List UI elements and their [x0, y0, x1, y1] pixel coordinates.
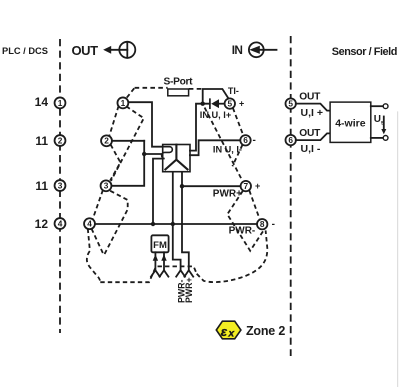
dashed test path junction to terminal 7 [205, 108, 243, 181]
PLC-side terminal circle 1 [55, 97, 66, 108]
module terminal circle 5 [225, 98, 235, 108]
svg-text:-: - [253, 135, 256, 146]
svg-text:S-Port: S-Port [164, 77, 194, 88]
isolator input S symbol [162, 147, 173, 159]
svg-text:IN U, I+: IN U, I+ [200, 110, 231, 120]
wire terminal 2 to node A [112, 140, 145, 142]
svg-text:OUT: OUT [299, 128, 321, 139]
field boundary dashed line [290, 36, 292, 356]
dashed option: terminal 1 to terminal 2 [109, 106, 118, 136]
junction TI tap [201, 102, 205, 106]
PLC/DCS boundary dashed line [59, 39, 61, 333]
svg-text:IN: IN [232, 43, 243, 57]
IN direction symbol [249, 42, 277, 57]
PLC-side terminal circle 2 [55, 135, 66, 146]
dashed option: terminal 4 elbow to plug bus [87, 229, 100, 283]
wire field 5 to 4-wire sensor [296, 104, 330, 111]
svg-text:TI-: TI- [228, 86, 239, 96]
svg-text:4-wire: 4-wire [335, 117, 366, 129]
wire isolator box to terminal 6 [190, 140, 241, 155]
dashed arc bus to terminal 8 [197, 230, 268, 282]
sensor supply stub top [371, 105, 383, 107]
FM box [151, 235, 168, 252]
dashed option: terminal 1 via vertex to terminal 3 [111, 106, 144, 181]
svg-text:5: 5 [227, 99, 232, 109]
wire terminal 1 to isolator box [128, 102, 163, 147]
junction bottom-left pin on rail [171, 222, 175, 226]
dashed option: terminal 3 via elbow to bottom vertex [104, 191, 128, 256]
dashed S-Port line right [189, 88, 202, 90]
svg-text:OUT: OUT [72, 43, 99, 58]
PLC-side terminal circle 3 [55, 180, 66, 191]
module terminal circle 1 [117, 97, 128, 108]
module terminal circle 6 [240, 135, 250, 145]
svg-text:6: 6 [288, 135, 293, 145]
svg-text:1: 1 [58, 98, 63, 108]
PWR- plug chevron [176, 270, 185, 276]
wire rail to PWR- plug [173, 224, 181, 270]
diode D1 [210, 99, 225, 108]
svg-text:8: 8 [260, 219, 265, 229]
svg-text:PWR+: PWR+ [184, 277, 194, 303]
svg-text:ε: ε [221, 324, 228, 339]
dashed plug bus [100, 266, 196, 282]
svg-text:PLC / DCS: PLC / DCS [2, 46, 48, 56]
wire isolator box to diode/terminal 5 [190, 104, 210, 151]
svg-text:PWR-: PWR- [229, 226, 256, 237]
svg-text:+: + [239, 99, 244, 109]
svg-text:11: 11 [35, 179, 48, 193]
svg-text:FM: FM [153, 240, 167, 251]
svg-text:U,I +: U,I + [301, 107, 323, 119]
Ex hexagon symbol [216, 321, 241, 339]
module terminal circle 7 [241, 181, 251, 191]
FM pin 1 [151, 252, 160, 276]
4-wire sensor box [330, 102, 371, 142]
module terminal circle 4 [84, 218, 95, 229]
svg-text:4: 4 [87, 219, 92, 229]
junction rail / box-left drop [151, 222, 155, 226]
svg-text:U,I -: U,I - [301, 143, 321, 155]
dashed option: terminal 4 to bottom vertex [92, 229, 104, 256]
svg-text:12: 12 [35, 217, 49, 231]
isolator box U1 [163, 145, 190, 172]
wire node A to isolator box [144, 153, 163, 155]
svg-text:6: 6 [243, 135, 248, 145]
svg-text:Zone 2: Zone 2 [246, 324, 285, 338]
dashed option: terminal 6 to vertex [232, 145, 242, 167]
wire terminal 3 to node A [111, 141, 144, 186]
dashed option: terminal 5 to terminal 6 [233, 108, 243, 135]
svg-text:OUT: OUT [299, 91, 321, 102]
sensor supply terminal top [383, 104, 388, 109]
svg-text:Sensor / Field: Sensor / Field [332, 46, 397, 58]
wire PWR- rail (terminal 4 to terminal 8) [95, 223, 257, 225]
dashed option: terminal 2 via vertex to terminal 3 [110, 145, 120, 181]
svg-text:5: 5 [288, 99, 293, 109]
wire field 6 to 4-wire sensor [296, 133, 330, 140]
svg-text:1: 1 [121, 98, 126, 108]
wire isolator box to PWR- rail [153, 159, 163, 224]
module terminal circle 2 [101, 135, 112, 146]
svg-text:4: 4 [58, 218, 63, 228]
module terminal circle 8 [257, 219, 267, 229]
dashed option: terminal 7 zigzag to terminal 8 [227, 191, 264, 251]
svg-text:-: - [272, 219, 275, 230]
svg-text:3: 3 [58, 180, 63, 190]
wire TI- bypass [203, 89, 228, 104]
svg-text:7: 7 [243, 181, 248, 191]
dashed option: terminal 3 to terminal 4 [93, 190, 103, 219]
sensor supply terminal bottom [383, 136, 388, 141]
PWR+ plug chevron [184, 270, 193, 276]
junction node A [142, 152, 146, 156]
svg-text:+: + [255, 181, 260, 191]
FM pin 2 [160, 252, 169, 276]
svg-text:11: 11 [35, 134, 48, 148]
dashed S-Port line left [135, 87, 168, 89]
isolator isolation fork symbol [165, 145, 187, 170]
svg-text:2: 2 [58, 135, 63, 145]
dashed option: terminal 7 to terminal 8 [249, 190, 259, 219]
field terminal circle 6 [286, 135, 296, 145]
svg-text:3: 3 [104, 181, 109, 191]
field terminal circle 5 [286, 98, 296, 108]
OUT direction symbol [103, 42, 135, 58]
supply voltage arrow [381, 117, 386, 135]
svg-text:2: 2 [104, 136, 109, 146]
sensor supply stub bottom [371, 137, 383, 139]
junction PWR+ pin [180, 184, 184, 188]
wire PWR+ junction to terminal 7 [182, 185, 241, 187]
PLC-side terminal circle 4 [55, 218, 66, 229]
isolator bottom-right pin to PWR+ plug [182, 172, 189, 270]
svg-text:x: x [227, 328, 235, 340]
module terminal circle 3 [101, 180, 112, 191]
dashed option: terminal 1 to S-Port line [127, 88, 135, 98]
isolator bottom-left pin to rail [172, 172, 174, 224]
svg-text:14: 14 [35, 95, 49, 109]
S-Port box [168, 89, 189, 96]
